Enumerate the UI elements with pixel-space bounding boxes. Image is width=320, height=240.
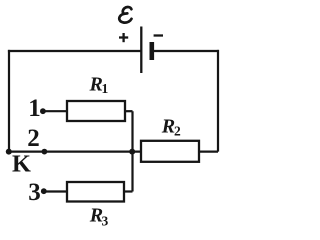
- svg-text:2: 2: [174, 124, 181, 139]
- wire left vertical: [8, 50, 10, 152]
- node 1 dot: [40, 108, 46, 114]
- wire node 1 to R1: [43, 110, 67, 112]
- wire top-right horizontal: [152, 50, 219, 52]
- svg-text:1: 1: [28, 95, 41, 122]
- wire R3 right stub: [124, 190, 133, 192]
- battery minus sign: [154, 34, 163, 36]
- svg-text:R: R: [161, 116, 175, 138]
- svg-text:K: K: [12, 150, 31, 177]
- svg-text:3: 3: [28, 179, 41, 206]
- svg-text:3: 3: [102, 214, 109, 229]
- battery plus sign: [119, 33, 128, 42]
- EMF script-E symbol: [119, 7, 131, 23]
- svg-text:1: 1: [102, 81, 109, 96]
- node K dot: [6, 149, 12, 155]
- wire vertical connector R1/R3 to junction: [131, 111, 133, 191]
- wire top-left horizontal: [8, 50, 141, 52]
- wire node 3 to R3: [44, 190, 67, 192]
- resistor R3: [67, 182, 124, 202]
- node 3 dot: [41, 188, 47, 194]
- wire node K row horizontal: [9, 151, 141, 153]
- node 2 dot: [42, 149, 48, 155]
- resistor R1: [67, 101, 125, 121]
- wire R2 right to frame: [199, 151, 218, 153]
- battery long plate (+): [140, 27, 142, 74]
- svg-text:2: 2: [27, 125, 40, 152]
- junction dot: [129, 149, 135, 155]
- battery short thick plate (-): [150, 42, 155, 60]
- wire R1 right stub: [125, 110, 133, 112]
- wire right vertical: [217, 50, 219, 152]
- resistor R2: [141, 141, 199, 162]
